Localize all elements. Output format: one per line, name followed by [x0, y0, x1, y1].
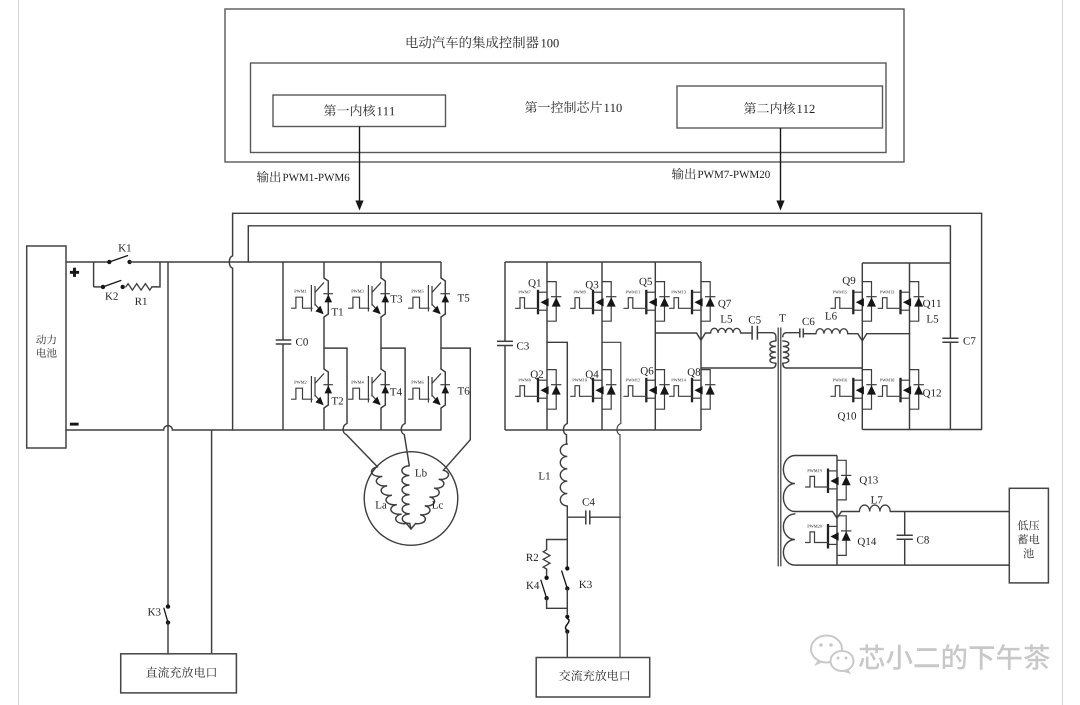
label C5	[749, 316, 761, 323]
label Q1	[529, 279, 541, 288]
label 输出PWM1-PWM6	[257, 171, 350, 183]
phase A wire with hop	[324, 348, 378, 467]
battery label	[36, 335, 56, 358]
R2 lead to K4	[546, 569, 548, 578]
label Q14	[858, 538, 876, 547]
transformer T primary winding	[770, 341, 776, 363]
switch K3 (DC)	[164, 604, 170, 624]
label Q10	[838, 412, 856, 421]
label K4	[526, 582, 539, 589]
label L6	[825, 312, 837, 319]
label Q4	[586, 371, 599, 380]
IGBT T3	[349, 278, 402, 317]
label R1	[135, 298, 147, 305]
inductor L5	[711, 328, 741, 333]
C8 rail	[904, 512, 906, 566]
label Q9	[843, 277, 856, 286]
inner distribution wire	[248, 226, 950, 338]
scan border line left	[18, 0, 20, 705]
wire leg Q13/Q14	[836, 456, 838, 566]
wire Q5/Q6 midpoint to L5 with V hop	[655, 333, 710, 340]
wire C4 branch left	[567, 516, 586, 518]
label Q11	[923, 300, 941, 309]
MOSFET Q5	[624, 282, 670, 322]
transformer secondary winding 2 upper	[783, 456, 795, 512]
switch K2	[101, 281, 125, 290]
plus terminal	[70, 268, 79, 277]
label Q2	[531, 371, 543, 380]
transformer secondary winding 1	[783, 341, 789, 363]
DC charge port box 直流充放电口	[121, 654, 237, 693]
wire Q1/Q2 midpoint to L1 with hop	[547, 342, 567, 444]
MOSFET Q3	[571, 282, 617, 322]
IGBT T1	[292, 278, 343, 317]
minus bus with hop over DC tap	[66, 426, 441, 430]
wire L5 to C5	[741, 332, 753, 334]
switch K1	[107, 256, 132, 265]
wire secondary1 top to C6	[783, 333, 800, 337]
label C8	[917, 536, 929, 543]
label R2	[526, 554, 538, 561]
minus terminal	[70, 423, 79, 426]
wire C6 to L6	[803, 333, 816, 335]
IGBT T6	[409, 369, 470, 408]
label 输出PWM7-PWM20	[672, 168, 770, 180]
label Q5	[639, 278, 652, 287]
MOSFET Q13	[806, 460, 852, 500]
label C0	[296, 338, 308, 345]
K2 branch drop	[93, 262, 95, 287]
plus wire battery to K1	[66, 261, 109, 263]
bridge2 bottom bus	[862, 429, 981, 431]
label T	[779, 314, 785, 321]
bridge1 bottom bus	[505, 429, 701, 431]
motor circle	[364, 452, 458, 546]
label 直流充放电口	[146, 667, 216, 678]
K2 branch wire	[94, 286, 103, 288]
wire leg Q11/Q12	[909, 263, 911, 430]
wire leg Q5/Q6	[654, 262, 656, 430]
wire fuse to AC port	[566, 632, 568, 658]
transformer core	[778, 328, 781, 567]
label C4	[583, 498, 595, 505]
MOSFET Q1	[516, 282, 562, 322]
capacitor C8	[897, 535, 913, 539]
K2 branch return	[152, 262, 160, 287]
fuse / interlock squiggle	[565, 615, 569, 634]
core box 112	[677, 86, 883, 128]
IGBT T5	[409, 278, 470, 317]
title 电动汽车的集成控制器100	[407, 36, 559, 48]
label 第一内核111	[324, 104, 395, 116]
resistor R1	[126, 284, 152, 290]
inverter left rail	[282, 262, 284, 430]
MOSFET Q9	[831, 282, 877, 322]
wire coil top to Q13	[795, 455, 837, 457]
label 交流充放电口	[559, 670, 629, 681]
label La	[376, 501, 387, 508]
plus wire K1 to inverter	[130, 261, 441, 263]
wire leg T5/T6	[440, 262, 442, 430]
wire junction to R2/K3 branch	[566, 517, 568, 568]
outer frame left drop with hop over plus wire	[229, 213, 232, 430]
capacitor C3	[497, 341, 513, 345]
MOSFET Q14	[806, 516, 852, 556]
label K2	[105, 293, 118, 300]
label 第一控制芯片110	[525, 101, 622, 113]
MOSFET Q6	[624, 370, 670, 410]
inner wire lower segment (C7 rail bottom)	[949, 342, 951, 429]
phase C wire	[441, 348, 470, 470]
capacitor C7	[942, 338, 958, 342]
motor winding La	[371, 467, 411, 529]
MOSFET Q11	[878, 282, 924, 322]
DC port left tap wire	[167, 262, 169, 607]
label Q7	[718, 300, 731, 309]
MOSFET Q10	[831, 370, 877, 410]
MOSFET Q12	[878, 370, 924, 410]
wire L7 to battery	[890, 511, 1009, 513]
outer frame right rail	[981, 213, 983, 429]
label K3	[148, 608, 161, 615]
wire leg T3/T4	[380, 262, 382, 430]
wire Q3/Q4 midpoint to AC port with hop	[602, 342, 621, 657]
label L5	[721, 315, 732, 322]
label Lb	[415, 469, 426, 477]
label 低压蓄电池	[1018, 520, 1040, 558]
scan border line right	[1062, 0, 1064, 705]
wire C4 branch right	[590, 516, 621, 518]
label Q8	[688, 368, 701, 377]
wire Q7/Q8 midpoint to primary bottom	[701, 363, 776, 368]
outer frame top wire	[233, 212, 982, 214]
wire K3 to fuse	[566, 589, 568, 615]
watermark wechat icon	[811, 636, 854, 675]
capacitor C0	[276, 340, 292, 344]
inductor L7	[859, 505, 890, 511]
wire leg Q9/Q10	[861, 263, 863, 430]
label 第二内核112	[744, 102, 815, 114]
watermark text 芯小二的下午茶	[859, 644, 1050, 670]
bottom output wire	[795, 564, 1009, 566]
wire C5 to transformer primary	[757, 333, 776, 341]
bridge1 left rail	[504, 262, 506, 430]
IGBT T4	[349, 369, 402, 408]
label C6	[802, 318, 814, 325]
label Q3	[586, 281, 599, 290]
K4 branch bottom	[547, 598, 568, 608]
label Q6	[641, 367, 654, 376]
wire secondary1 bottom to Q9 leg	[783, 363, 863, 368]
MOSFET Q7	[670, 282, 716, 322]
MOSFET Q4	[571, 370, 617, 410]
core box 111	[273, 95, 446, 127]
label C7	[963, 337, 975, 344]
MOSFET Q8	[670, 370, 716, 410]
label Lc	[432, 501, 443, 508]
label Q13	[860, 476, 878, 485]
arrow from core 112	[776, 128, 784, 211]
stray label L5	[927, 315, 938, 322]
phase B wire with hop	[381, 348, 409, 466]
capacitor C6	[800, 328, 804, 337]
capacitor C4	[586, 510, 590, 524]
inductor L1	[560, 444, 567, 506]
bridge1 top bus	[505, 261, 701, 263]
label C3	[517, 342, 529, 349]
label L7	[871, 496, 883, 503]
arrow from core 111	[355, 127, 363, 211]
MOSFET Q2	[516, 370, 562, 410]
AC charge port box 交流充放电口	[536, 658, 650, 698]
transformer secondary winding 2 lower	[783, 514, 795, 565]
inductor L6	[816, 329, 848, 334]
resistor R2	[543, 550, 550, 569]
wire leg Q3/Q4	[601, 262, 603, 430]
DC port left wire lower	[167, 623, 169, 654]
label K3	[579, 581, 592, 588]
wire L1 to C4 junction	[566, 506, 568, 517]
wire L6 to Q11 leg with V hop	[848, 334, 910, 341]
switch K3 (AC)	[562, 566, 570, 591]
label K1	[118, 244, 130, 251]
label Q12	[923, 389, 941, 398]
center tap wire with V hop	[795, 512, 860, 519]
capacitor C5	[752, 326, 757, 340]
battery box 动力电池	[27, 246, 66, 448]
bridge2 top bus	[862, 262, 950, 264]
controller box U100	[225, 9, 904, 162]
label L1	[539, 472, 550, 479]
motor winding Lb	[402, 466, 411, 529]
IGBT T2	[292, 369, 343, 408]
wire leg T1/T2	[323, 262, 325, 430]
R2 branch top	[547, 540, 568, 550]
switch K4	[541, 576, 549, 601]
motor winding Lc	[411, 470, 448, 529]
control chip box 110	[251, 63, 887, 153]
low voltage battery box 低压蓄电池	[1009, 488, 1048, 583]
wire leg Q7/Q8	[700, 262, 702, 430]
DC port right wire	[211, 430, 213, 654]
wire leg Q1/Q2	[546, 262, 548, 430]
